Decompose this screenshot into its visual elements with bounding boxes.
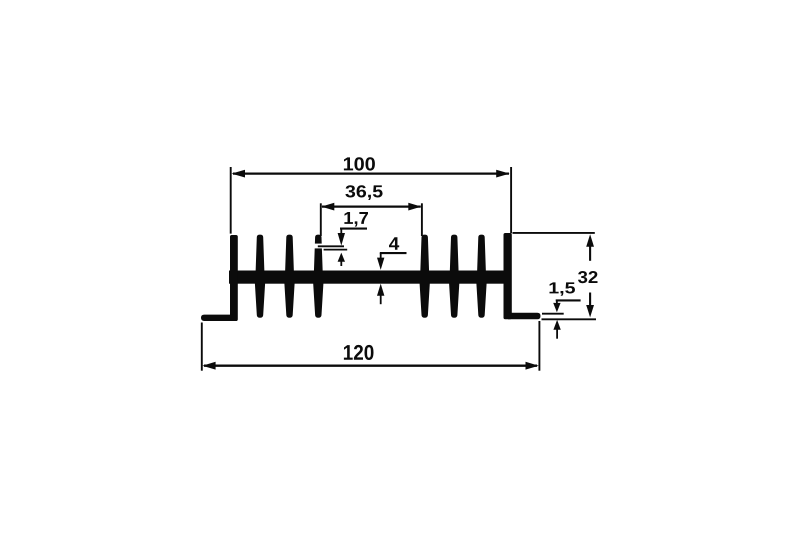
top fin 5 xyxy=(450,235,459,272)
dim 36,5 left arrow xyxy=(321,203,334,211)
dim 32 lower arrow head xyxy=(586,305,594,317)
left end wall xyxy=(230,235,238,321)
dim 32 lower stem xyxy=(589,293,591,307)
dim 36,5 right extension line xyxy=(421,203,423,236)
heatsink base plate xyxy=(229,271,512,284)
dim 36,5 left extension line xyxy=(320,203,322,236)
top fin 4 xyxy=(420,235,429,272)
dim 100 right arrow xyxy=(496,170,510,178)
dim 32 upper stem xyxy=(589,245,591,261)
dim 36,5 line xyxy=(322,205,421,207)
dim 100 left arrow xyxy=(232,170,246,178)
callout 1,5 label xyxy=(550,282,576,295)
callout 1,7 fin halo xyxy=(314,244,324,249)
dim 120 right extension line xyxy=(538,321,540,371)
callout 1,7 down arrow head xyxy=(338,233,345,246)
dim 120 right arrow xyxy=(526,362,539,370)
callout 1,7 lower measure line xyxy=(324,249,348,251)
dim 32 bottom extension line xyxy=(542,318,597,320)
callout 1,5 up arrow head xyxy=(553,320,560,330)
callout 1,5 foot top extension line xyxy=(542,313,564,315)
bottom fin 4 xyxy=(420,282,430,318)
bottom fin 5 xyxy=(449,282,459,318)
right end wall xyxy=(504,233,512,319)
callout 1,7 up arrow stem xyxy=(340,261,342,266)
callout 1,5 down arrow head xyxy=(553,303,560,312)
dim 120 left extension line xyxy=(201,323,203,371)
callout 4 down arrow head xyxy=(377,258,384,270)
top fin 1 xyxy=(256,235,265,272)
callout 1,5 shoulder line xyxy=(556,299,581,301)
top fin 2 xyxy=(285,235,294,272)
bottom fin 6 xyxy=(476,282,486,318)
callout 1,7 label xyxy=(344,212,368,227)
left mounting foot xyxy=(201,315,233,321)
dim 32 top extension line xyxy=(513,232,595,234)
top fin 6 xyxy=(477,235,486,272)
dim 100 label xyxy=(344,157,375,170)
dim 120 line xyxy=(204,365,537,367)
callout 4 label xyxy=(389,237,399,250)
callout 1,7 upper measure line xyxy=(318,245,344,247)
callout 1,7 down arrow stem xyxy=(340,229,342,239)
callout 1,5 up arrow stem xyxy=(556,329,558,339)
dim 32 label xyxy=(578,271,598,283)
callout 4 up arrow head xyxy=(377,284,384,296)
callout 4 down arrow stem xyxy=(380,253,382,259)
dim 36,5 right arrow xyxy=(408,203,421,211)
bottom fin 1 xyxy=(255,282,265,318)
dim 100 line xyxy=(233,172,509,174)
dim 100 left extension line xyxy=(230,167,232,234)
dim 100 right extension line xyxy=(510,167,512,233)
bottom fin 3 xyxy=(313,282,323,318)
dim 120 left arrow xyxy=(202,362,215,370)
bottom fin 2 xyxy=(284,282,294,318)
dim 32 upper arrow head xyxy=(586,234,594,246)
callout 1,7 shoulder line xyxy=(340,228,367,230)
callout 1,5 down arrow stem xyxy=(556,300,558,304)
right mounting foot xyxy=(508,313,541,320)
top fin 3 xyxy=(314,235,323,272)
dim 120 label xyxy=(344,345,374,360)
callout 4 up arrow stem xyxy=(380,295,382,304)
dim 36,5 label xyxy=(345,185,382,200)
callout 4 shoulder line xyxy=(380,252,407,254)
callout 1,7 up arrow head xyxy=(338,253,345,262)
